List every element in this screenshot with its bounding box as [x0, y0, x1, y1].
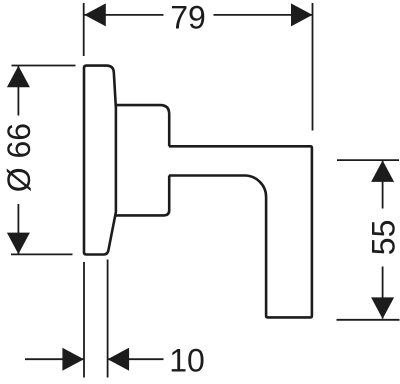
dimension line 79 left segment — [85, 14, 164, 16]
arrowhead up (66 dim) — [7, 66, 30, 88]
extension line left (10 dim) — [83, 262, 85, 378]
dimension line 10 left segment — [25, 358, 84, 360]
handle hub lower outline — [116, 176, 169, 216]
arrowhead right (79 dim) — [291, 3, 313, 26]
svg-text:55: 55 — [365, 220, 400, 256]
extension line bottom (diameter 66 dim) — [11, 253, 73, 255]
dimension line 66 lower segment — [17, 204, 19, 254]
svg-text:Ø 66: Ø 66 — [1, 123, 37, 192]
handle hub upper outline — [116, 105, 169, 146]
svg-text:10: 10 — [169, 343, 205, 379]
arrowhead pointing left (10 dim) — [108, 348, 130, 371]
extension line left (79 dim) — [83, 3, 85, 56]
extension line top (diameter 66 dim) — [12, 65, 76, 67]
dimension line 55 upper segment — [382, 161, 384, 209]
arrowhead down (55 dim) — [371, 297, 394, 319]
arrowhead up (55 dim) — [371, 160, 394, 182]
escutcheon plate (side view) — [84, 66, 116, 255]
dimension line 79 right segment — [214, 14, 313, 16]
dimension line 55 lower segment — [382, 267, 384, 319]
svg-text:79: 79 — [170, 0, 206, 36]
extension line right (10 dim) — [107, 260, 109, 378]
handle lever (L-shaped) — [169, 146, 312, 317]
dimension line 66 upper segment — [17, 66, 19, 116]
arrowhead left (79 dim) — [84, 3, 106, 26]
extension line top (55 dim) — [337, 159, 399, 161]
extension line bottom (55 dim) — [337, 319, 400, 321]
arrowhead down (66 dim) — [7, 233, 30, 255]
extension line right (79 dim) — [312, 3, 314, 131]
dimension line 10 right segment — [108, 358, 164, 360]
arrowhead pointing right (10 dim) — [62, 348, 84, 371]
